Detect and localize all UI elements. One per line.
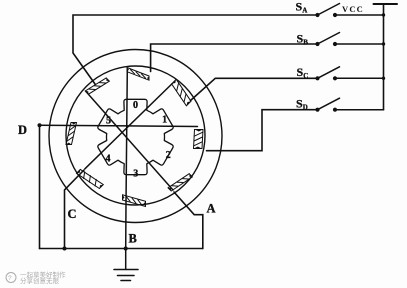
svg-text:2: 2	[166, 150, 171, 161]
svg-text:SB: SB	[297, 32, 309, 47]
wire: S_B feed down to top pole	[151, 44, 318, 72]
svg-text:1: 1	[162, 115, 167, 126]
ground symbol	[114, 270, 138, 281]
wire: phase C diagonal through motor (45 to 225 pole)	[85, 84, 172, 169]
bus junction dot SC row	[382, 77, 385, 80]
svg-text:SA: SA	[296, 0, 308, 15]
watermark	[6, 270, 66, 285]
wire: phase A diagonal through motor (135 to 315 pole)	[86, 91, 174, 190]
stator pole winding lower-right (315 deg)	[168, 174, 192, 191]
stator pole winding right (0 deg)	[194, 130, 204, 149]
wire: node C exit down to bottom bus	[65, 170, 85, 249]
switch SA	[315, 13, 319, 17]
wire: phase D horizontal through motor (right to left pole)	[40, 125, 198, 126]
wire: S_A feed line top	[73, 15, 318, 84]
svg-text:SC: SC	[297, 65, 309, 80]
node C-bus junction	[63, 247, 67, 251]
svg-text:D: D	[18, 123, 27, 137]
svg-text:3: 3	[133, 169, 138, 180]
stator pole winding lower-left (225 deg)	[77, 169, 104, 188]
wire: S_D feed to right pole	[207, 110, 319, 151]
svg-text:分享创意无限: 分享创意无限	[20, 276, 60, 285]
svg-text:?: ?	[8, 275, 12, 282]
svg-text:VCC: VCC	[342, 4, 364, 14]
wire: phase B vertical through motor (top to bottom pole)	[126, 70, 128, 269]
node D junction dot	[38, 123, 42, 127]
svg-text:B: B	[129, 232, 137, 246]
switch SB	[315, 42, 319, 46]
stator outer circle	[49, 50, 222, 223]
stator pole winding upper-left (135 deg)	[85, 78, 109, 94]
bus junction dot SB row	[382, 42, 385, 45]
svg-text:4: 4	[106, 153, 111, 164]
wire: S_C feed to upper-right pole	[191, 78, 319, 100]
stator pole winding top (90 deg)	[127, 68, 149, 81]
node B-bus junction	[124, 247, 128, 251]
VCC bus vertical	[383, 4, 385, 110]
wire: node A exit to bottom bus	[174, 192, 203, 249]
switch SC	[315, 76, 319, 80]
bus junction dot SA row	[382, 13, 385, 16]
stator pole winding left (180 deg)	[66, 123, 77, 145]
svg-text:C: C	[68, 207, 77, 221]
stator pole winding bottom (270 deg)	[123, 195, 146, 207]
wire: D vertical down to bottom bus	[39, 125, 41, 248]
switch SD	[315, 108, 319, 112]
VCC rail top bar	[374, 3, 398, 5]
svg-text:0: 0	[133, 100, 138, 111]
svg-text:A: A	[207, 202, 216, 216]
stator pole winding upper-right (45 deg)	[172, 79, 191, 106]
svg-text:SD: SD	[296, 97, 308, 112]
stator inner circle	[66, 66, 205, 205]
rotor (6-tooth gear, teeth 0-5)	[98, 99, 173, 174]
wire: common bottom bus to ground	[40, 248, 203, 250]
